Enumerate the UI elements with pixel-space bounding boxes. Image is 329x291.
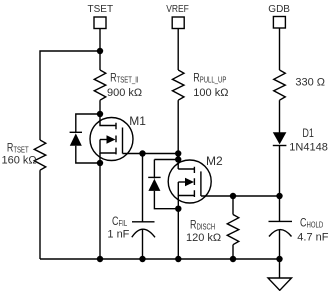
svg-text:100 kΩ: 100 kΩ bbox=[193, 87, 228, 99]
wire M2 body-diode bottom bbox=[154, 191, 178, 209]
resistor R_TSET_II bbox=[94, 70, 106, 100]
wire M2 source to rail bbox=[177, 209, 179, 259]
body diode of M2 bbox=[148, 160, 160, 191]
node rail M1 source bbox=[97, 256, 103, 262]
label R_PULL_UP 100 kOhm bbox=[193, 71, 228, 98]
wire C_HOLD to rail bbox=[279, 230, 281, 260]
node C_HOLD top junction bbox=[276, 193, 282, 199]
label VREF bbox=[166, 3, 189, 14]
wire ground rail bbox=[40, 258, 280, 260]
label 330 Ohm bbox=[295, 77, 325, 89]
label TSET bbox=[88, 4, 114, 15]
svg-text:M1: M1 bbox=[129, 114, 146, 128]
wire 330 ohm to D1 bbox=[279, 100, 281, 132]
wire C_HOLD top lead bbox=[279, 196, 281, 221]
terminal VREF bbox=[172, 17, 184, 29]
node rail C_FIL bbox=[139, 256, 145, 262]
node M1 source bbox=[97, 160, 103, 166]
wire to ground symbol bbox=[279, 259, 281, 278]
body diode of M1 bbox=[70, 132, 82, 146]
node R_DISCH top bbox=[230, 193, 236, 199]
wire M2 gate to C_HOLD column bbox=[201, 195, 280, 197]
wire M1 body-diode top bbox=[76, 114, 100, 133]
wire TSET to R_TSET_II bbox=[99, 29, 101, 71]
wire M1 gate to VREF column bbox=[123, 153, 179, 155]
capacitor C_HOLD bbox=[269, 221, 293, 236]
label C_FIL 1 nF bbox=[107, 215, 129, 240]
svg-text:TSET: TSET bbox=[88, 4, 114, 15]
wire R_TSET to rail bbox=[39, 170, 41, 259]
wire top-left to R_TSET bbox=[40, 51, 100, 140]
label M2 bbox=[206, 154, 223, 168]
wire GDB to 330 ohm resistor bbox=[279, 28, 281, 70]
transistor M2 bbox=[168, 160, 211, 209]
resistor R_PULL_UP bbox=[172, 70, 184, 100]
label R_TSET_II 900 kOhm bbox=[107, 71, 142, 98]
svg-text:330 Ω: 330 Ω bbox=[295, 77, 325, 89]
wire R_DISCH to rail bbox=[232, 245, 234, 259]
wire M1 source to rail bbox=[99, 163, 101, 259]
wire M1 body-diode bottom bbox=[76, 146, 100, 163]
svg-text:RTSET_II: RTSET_II bbox=[110, 71, 139, 85]
node rail M2 source bbox=[175, 256, 181, 262]
terminal GDB bbox=[273, 17, 285, 29]
svg-text:CFIL: CFIL bbox=[112, 215, 127, 229]
svg-text:4.7 nF: 4.7 nF bbox=[297, 232, 328, 244]
ground bbox=[268, 278, 292, 290]
node M2 source bbox=[175, 206, 181, 212]
svg-text:D1: D1 bbox=[302, 127, 314, 141]
node M2 body-diode top bbox=[175, 156, 181, 162]
node M2 drain gate junction bbox=[175, 150, 181, 156]
resistor R_TSET bbox=[34, 140, 46, 170]
label D1 1N4148 bbox=[289, 127, 328, 154]
node M1 drain bbox=[97, 111, 103, 117]
label R_DISCH 120 kOhm bbox=[186, 218, 221, 244]
node at TSET branch bbox=[97, 48, 103, 54]
wire D1 to C_HOLD junction bbox=[279, 145, 281, 196]
label C_HOLD 4.7 nF bbox=[297, 216, 328, 243]
wire M2 body-diode top bbox=[154, 159, 178, 161]
capacitor C_FIL bbox=[132, 222, 155, 238]
wire R_DISCH top lead bbox=[232, 196, 234, 215]
svg-text:RPULL_UP: RPULL_UP bbox=[193, 71, 226, 85]
terminal TSET bbox=[94, 17, 106, 29]
svg-text:RTSET: RTSET bbox=[7, 141, 29, 155]
svg-text:1 nF: 1 nF bbox=[107, 229, 129, 241]
svg-text:120 kΩ: 120 kΩ bbox=[186, 232, 221, 244]
svg-text:CHOLD: CHOLD bbox=[300, 216, 323, 230]
node C_FIL branch bbox=[139, 150, 145, 156]
svg-text:900 kΩ: 900 kΩ bbox=[107, 87, 142, 99]
resistor 330 ohm bbox=[274, 70, 286, 100]
label M1 bbox=[129, 114, 146, 128]
svg-text:160 kΩ: 160 kΩ bbox=[2, 154, 37, 166]
svg-text:1N4148: 1N4148 bbox=[289, 141, 328, 153]
svg-text:M2: M2 bbox=[206, 154, 223, 168]
wire R_TSET_II to M1 drain bbox=[99, 100, 101, 114]
svg-text:GDB: GDB bbox=[268, 4, 290, 15]
svg-text:RDISCH: RDISCH bbox=[190, 218, 215, 232]
transistor M1 bbox=[90, 114, 133, 163]
wire C_FIL branch bbox=[142, 154, 144, 222]
label R_TSET 160 kOhm bbox=[2, 141, 37, 166]
svg-text:VREF: VREF bbox=[166, 3, 189, 14]
wire C_FIL to rail bbox=[142, 229, 144, 259]
node rail R_DISCH bbox=[230, 256, 236, 262]
node rail ground bbox=[276, 256, 282, 262]
wire R_PULL_UP to M2 drain bbox=[177, 100, 179, 169]
diode D1 bbox=[273, 132, 287, 145]
wire VREF to R_PULL_UP bbox=[177, 29, 179, 71]
resistor R_DISCH bbox=[227, 215, 239, 245]
label GDB bbox=[268, 4, 290, 15]
